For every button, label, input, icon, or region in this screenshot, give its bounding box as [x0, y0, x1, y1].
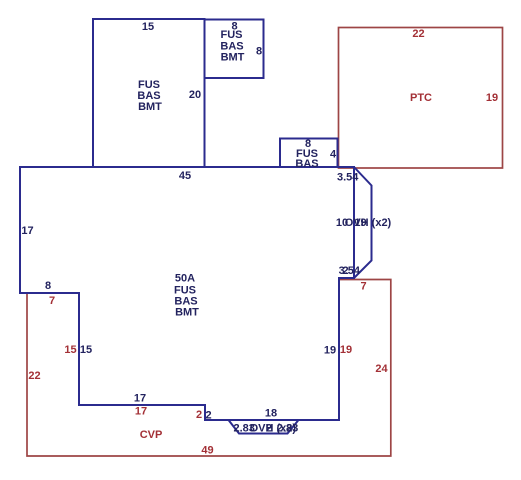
svg-text:7: 7 [360, 281, 366, 293]
room FUS BAS BMT large blue rectangle [93, 19, 205, 167]
svg-text:2.83: 2.83 [277, 423, 298, 435]
svg-text:22: 22 [412, 28, 424, 40]
svg-text:50A: 50A [175, 273, 195, 285]
svg-text:22: 22 [28, 370, 40, 382]
svg-text:17: 17 [21, 225, 33, 237]
room FUS BAS blue rectangle [280, 139, 338, 168]
svg-text:CVP: CVP [140, 429, 163, 441]
room 50A FUS BAS BMT blue polygon [20, 167, 354, 420]
svg-text:4: 4 [330, 149, 337, 161]
svg-text:2: 2 [205, 410, 211, 422]
svg-text:BMT: BMT [221, 52, 245, 64]
CVP red outline polygon [27, 280, 391, 457]
svg-text:BMT: BMT [138, 101, 162, 113]
svg-text:7: 7 [49, 295, 55, 307]
svg-text:17: 17 [134, 393, 146, 405]
svg-text:BMT: BMT [175, 307, 199, 319]
svg-text:8: 8 [45, 280, 51, 292]
room FUS BAS BMT small blue rectangle [205, 20, 264, 79]
OVH side bay hexagon overlay [354, 167, 372, 278]
svg-text:17: 17 [135, 406, 147, 418]
svg-text:18: 18 [265, 408, 277, 420]
svg-text:OVH (x2): OVH (x2) [345, 217, 392, 229]
svg-text:2: 2 [266, 423, 272, 435]
svg-text:2: 2 [196, 409, 202, 421]
svg-text:20: 20 [189, 89, 201, 101]
svg-text:2: 2 [342, 265, 348, 277]
svg-text:15: 15 [142, 21, 154, 33]
svg-text:15: 15 [64, 344, 76, 356]
svg-text:19: 19 [324, 345, 336, 357]
svg-text:PTC: PTC [410, 92, 432, 104]
svg-text:19: 19 [486, 92, 498, 104]
svg-text:BAS: BAS [295, 158, 318, 170]
svg-text:45: 45 [179, 170, 191, 182]
OVH bottom bay trapezoid overlay [229, 420, 299, 434]
svg-text:49: 49 [201, 445, 213, 457]
svg-text:3.54: 3.54 [337, 172, 359, 184]
svg-text:19: 19 [340, 344, 352, 356]
PTC red rectangle [339, 28, 503, 169]
svg-text:24: 24 [375, 363, 388, 375]
svg-text:8: 8 [256, 46, 262, 58]
svg-text:FUS: FUS [221, 29, 243, 41]
svg-text:15: 15 [80, 344, 92, 356]
